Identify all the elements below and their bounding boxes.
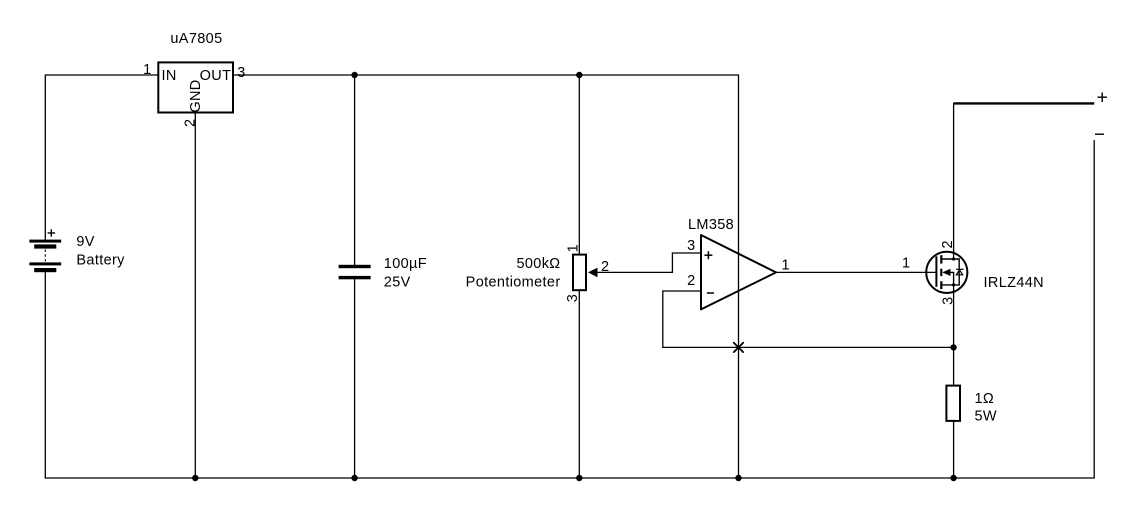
wire regulator GND pin down <box>194 113 196 478</box>
svg-text:Potentiometer: Potentiometer <box>466 275 561 291</box>
plus terminal mark <box>1098 92 1108 102</box>
wire thick plus output line <box>954 102 1095 104</box>
transistor Q1 MOSFET circle <box>926 252 967 293</box>
svg-text:OUT: OUT <box>200 68 232 84</box>
svg-text:3: 3 <box>687 238 695 254</box>
wire capacitor top <box>354 75 356 265</box>
transistor drain/source connectors <box>941 259 959 285</box>
battery dashed separator <box>44 250 46 263</box>
capacitor C1 plates <box>339 265 371 280</box>
op-amp minus input mark <box>707 292 714 294</box>
wire MOSFET source down to resistor <box>953 285 955 385</box>
potentiometer RV1 body <box>573 255 586 291</box>
svg-text:1: 1 <box>902 256 910 272</box>
wire regulator OUT to top-right corner and down (node VCC) <box>233 75 739 478</box>
svg-text:1: 1 <box>566 244 582 252</box>
svg-text:Battery: Battery <box>76 252 125 268</box>
svg-text:LM358: LM358 <box>688 217 734 233</box>
regulator U1 box <box>158 62 233 112</box>
svg-text:3: 3 <box>941 296 957 304</box>
resistor R1 body <box>946 386 960 421</box>
op-amp plus input mark <box>704 251 712 259</box>
transistor gate bar <box>935 256 937 287</box>
transistor bulk arrow <box>942 269 950 276</box>
battery BT1 <box>29 240 61 273</box>
node vcc bottom junction <box>735 475 741 481</box>
svg-text:3: 3 <box>565 294 581 302</box>
svg-text:2: 2 <box>940 240 956 248</box>
svg-text:GND: GND <box>188 79 204 112</box>
potentiometer wiper arrow <box>588 268 598 278</box>
svg-text:500kΩ: 500kΩ <box>516 256 560 272</box>
node cap bottom junction <box>351 475 357 481</box>
svg-text:IN: IN <box>162 68 177 84</box>
wire op-amp inverting input feedback <box>663 291 954 347</box>
wire potentiometer top <box>578 75 580 254</box>
wire capacitor bottom <box>354 279 356 478</box>
svg-text:2: 2 <box>183 119 199 127</box>
op-amp U2 triangle <box>701 235 776 309</box>
wire battery bottom to ground rail <box>44 272 46 478</box>
node cap top junction <box>351 72 357 78</box>
svg-text:100µF: 100µF <box>384 256 427 272</box>
wire minus output terminal down <box>1093 141 1095 479</box>
svg-text:uA7805: uA7805 <box>170 31 222 47</box>
transistor channel dashes <box>940 255 942 289</box>
node resistor bottom junction <box>950 475 956 481</box>
svg-text:1Ω: 1Ω <box>975 391 995 407</box>
svg-text:3: 3 <box>237 65 245 81</box>
node pot top junction <box>576 72 582 78</box>
wire potentiometer bottom <box>578 291 580 478</box>
node X crossing mark <box>734 343 743 352</box>
minus terminal mark <box>1095 133 1104 135</box>
node feedback-source junction <box>950 344 956 350</box>
wire MOSFET drain up <box>953 103 955 259</box>
svg-text:2: 2 <box>601 259 609 275</box>
node pot bottom junction <box>576 475 582 481</box>
svg-text:IRLZ44N: IRLZ44N <box>984 275 1044 291</box>
svg-text:9V: 9V <box>76 234 94 250</box>
svg-text:1: 1 <box>143 62 151 78</box>
transistor symbol junction dots <box>952 257 955 286</box>
svg-text:5W: 5W <box>975 409 997 425</box>
wire op-amp output to MOSFET gate <box>777 271 937 273</box>
wire ground rail (bottom) <box>45 477 1094 479</box>
wire battery top to regulator IN <box>45 75 158 240</box>
battery plus mark <box>48 229 56 236</box>
wire resistor bottom <box>953 422 955 478</box>
node reg gnd junction <box>192 475 198 481</box>
wire pot wiper to op-amp non-inverting input <box>597 253 701 272</box>
svg-text:1: 1 <box>782 258 790 274</box>
transistor body diode <box>956 269 964 275</box>
svg-text:25V: 25V <box>384 275 411 291</box>
svg-text:2: 2 <box>687 273 695 289</box>
